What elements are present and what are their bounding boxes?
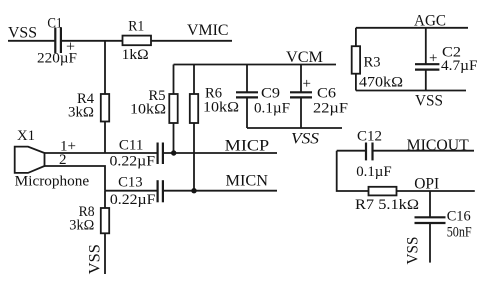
label R5 — [149, 88, 166, 104]
svg-text:22µF: 22µF — [313, 101, 348, 117]
capacitor C6 — [290, 92, 312, 97]
svg-text:Microphone: Microphone — [15, 173, 90, 189]
value 3kΩ (R8) — [69, 217, 94, 233]
svg-text:VSS: VSS — [87, 244, 104, 274]
wire rail to R6 — [193, 65, 195, 95]
wire C6 to VSS rail — [300, 97, 302, 128]
value 220µF — [37, 51, 77, 67]
capacitor C9 — [236, 92, 258, 97]
svg-text:+: + — [429, 51, 437, 67]
svg-text:MICN: MICN — [226, 172, 269, 189]
net label AGC — [414, 12, 446, 29]
label R6 — [205, 86, 222, 102]
wire AGC to R3 — [355, 28, 357, 46]
wire C11 to MICP — [163, 152, 277, 154]
svg-text:10kΩ: 10kΩ — [130, 102, 166, 118]
svg-text:R1: R1 — [128, 19, 144, 35]
resistor R6 — [190, 94, 198, 123]
svg-text:C11: C11 — [119, 137, 143, 153]
value 10kΩ (R5) — [130, 102, 166, 118]
wire R8 to VSS — [104, 233, 106, 274]
svg-text:C9: C9 — [261, 86, 280, 102]
value 22µF — [313, 101, 348, 117]
resistor R8 — [101, 208, 109, 233]
svg-text:0.22µF: 0.22µF — [110, 153, 156, 169]
value 0.22µF (C11) — [110, 153, 156, 169]
net label MICP — [225, 137, 270, 154]
wire junction to R4 — [104, 41, 106, 94]
wire R7 to OPI — [397, 190, 475, 192]
svg-text:C6: C6 — [317, 86, 337, 102]
wire AGC to C2 — [425, 28, 427, 64]
svg-text:220µF: 220µF — [37, 51, 77, 67]
net label VSS (input rail) — [8, 25, 37, 42]
value 0.1µF (C12) — [356, 164, 392, 180]
net label VSS (under C9 C6) — [291, 131, 319, 148]
svg-text:C13: C13 — [118, 174, 143, 190]
capacitor C16 — [415, 217, 446, 223]
wire mic pin2 — [45, 166, 106, 191]
capacitor C11 — [158, 143, 163, 165]
net label VCM — [286, 49, 323, 66]
label C13 — [118, 174, 143, 190]
wire C2 to VSS rail — [425, 70, 427, 91]
wire C13 to MICN — [163, 190, 277, 192]
resistor R7 — [369, 187, 397, 196]
junction dot MICP node — [171, 150, 176, 155]
wire R6 to MICN node — [193, 123, 195, 191]
resistor R1 — [123, 36, 152, 46]
label X1 — [17, 128, 35, 144]
capacitor C2 — [415, 64, 439, 69]
label R1 — [128, 19, 144, 35]
value 4.7µF — [441, 58, 478, 74]
wire VSS to C1 — [8, 40, 56, 42]
net label OPI — [414, 176, 439, 193]
svg-text:+: + — [303, 76, 311, 92]
wire OPI node to C16 — [429, 191, 431, 217]
capacitor C1 — [55, 28, 61, 54]
label C16 — [447, 208, 471, 224]
svg-text:C1: C1 — [47, 16, 62, 32]
wire R3 to VSS rail — [355, 74, 357, 91]
net label MICOUT — [407, 137, 470, 154]
pin label 2 — [59, 152, 67, 168]
value 1kΩ — [122, 47, 149, 63]
polarity + of C2 — [429, 51, 437, 67]
wire R4 to mic pin1 node — [104, 122, 106, 154]
svg-text:VMIC: VMIC — [187, 22, 229, 39]
svg-text:R3: R3 — [364, 55, 381, 71]
microphone X1 — [15, 147, 45, 173]
svg-text:X1: X1 — [17, 128, 35, 144]
svg-text:1kΩ: 1kΩ — [122, 47, 149, 63]
svg-text:MICP: MICP — [225, 137, 270, 154]
svg-text:MICOUT: MICOUT — [407, 137, 470, 154]
label R8 — [79, 204, 95, 220]
wire C9 to VSS rail — [246, 97, 248, 128]
svg-text:VCM: VCM — [286, 49, 323, 66]
wire MICOUT node to C12 — [337, 150, 366, 152]
polarity + of C1 — [66, 39, 75, 56]
svg-text:10kΩ: 10kΩ — [203, 100, 239, 116]
label C2 — [442, 45, 461, 61]
svg-text:0.1µF: 0.1µF — [356, 164, 392, 180]
wire rail to C6 — [300, 65, 302, 93]
label C12 — [357, 128, 382, 144]
value 470kΩ — [359, 75, 403, 91]
label C1 — [47, 16, 62, 32]
svg-text:VSS: VSS — [291, 131, 319, 148]
wire AGC rail — [356, 27, 468, 29]
wire rail to R5 — [173, 65, 175, 95]
net label VMIC — [187, 22, 229, 39]
resistor R4 — [101, 94, 109, 122]
svg-text:0.1µF: 0.1µF — [254, 101, 290, 117]
net label VSS (rotated, R8) — [87, 244, 104, 274]
svg-text:VSS: VSS — [8, 25, 37, 42]
label R4 — [77, 91, 94, 107]
svg-text:C16: C16 — [447, 208, 471, 224]
svg-text:VSS: VSS — [415, 93, 443, 110]
polarity + of C6 — [303, 76, 311, 92]
capacitor C13 — [158, 180, 163, 202]
wire rail to C9 — [246, 65, 248, 93]
value 0.1µF (C9) — [254, 101, 290, 117]
svg-text:OPI: OPI — [414, 176, 439, 193]
wire C16 to VSS — [429, 223, 431, 263]
value 50nF — [447, 224, 472, 240]
wire VSS rail under C9 C6 — [247, 127, 342, 129]
svg-text:0.22µF: 0.22µF — [110, 192, 156, 208]
resistor R5 — [169, 94, 177, 123]
svg-text:R7 5.1kΩ: R7 5.1kΩ — [355, 197, 419, 213]
capacitor C12 — [366, 143, 373, 161]
svg-text:AGC: AGC — [414, 12, 446, 29]
wire MICOUT node down to R7 — [337, 151, 369, 191]
label C11 — [119, 137, 143, 153]
wire C12 to MICOUT — [373, 150, 475, 152]
svg-text:4.7µF: 4.7µF — [441, 58, 478, 74]
pin label 1+ — [60, 138, 76, 154]
label C6 — [317, 86, 337, 102]
net label VSS (rotated, C16) — [405, 237, 422, 265]
resistor R3 — [352, 46, 360, 73]
junction dot MICN node — [191, 188, 196, 193]
net label MICN — [226, 172, 269, 189]
wire VSS rail (AGC block) — [356, 90, 466, 92]
svg-text:C12: C12 — [357, 128, 382, 144]
wire VCM rail — [174, 64, 337, 66]
value 3kΩ (R4) — [68, 105, 94, 121]
value 10kΩ (R6) — [203, 100, 239, 116]
net label VSS (AGC block) — [415, 93, 443, 110]
value 0.22µF (C13) — [110, 192, 156, 208]
svg-text:3kΩ: 3kΩ — [69, 217, 94, 233]
label C9 — [261, 86, 280, 102]
wire R1 to VMIC — [151, 40, 232, 42]
svg-text:VSS: VSS — [405, 237, 422, 265]
wire pin2 node to R8 — [104, 191, 106, 208]
svg-text:50nF: 50nF — [447, 224, 472, 240]
wire mic pin1 to C11 — [45, 152, 158, 154]
label and value R7 5.1kΩ — [355, 197, 419, 213]
svg-text:3kΩ: 3kΩ — [68, 105, 94, 121]
svg-text:470kΩ: 470kΩ — [359, 75, 403, 91]
wire R5 to MICP node — [173, 123, 175, 153]
label Microphone — [15, 173, 90, 189]
label R3 — [364, 55, 381, 71]
wire pin2 node to C13 — [105, 190, 158, 192]
wire C1 to R1 — [61, 40, 123, 42]
